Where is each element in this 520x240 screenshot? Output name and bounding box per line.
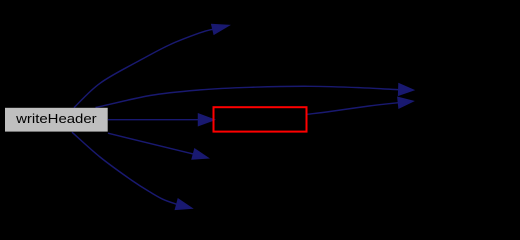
svg-text:writeHeader: writeHeader: [15, 112, 98, 126]
